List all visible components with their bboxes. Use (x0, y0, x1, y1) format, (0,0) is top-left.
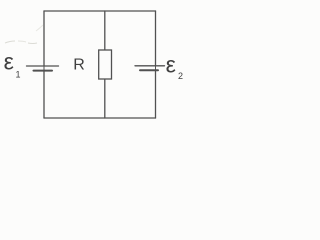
wire bottom rail (44, 117, 156, 119)
svg-text:2: 2 (178, 71, 183, 81)
svg-text:ε: ε (166, 52, 176, 78)
wire left branch lower (43, 71, 45, 118)
battery E1 plates (27, 66, 59, 71)
resistor R box (99, 50, 112, 79)
wire middle branch upper (104, 11, 106, 51)
wire middle branch lower (104, 79, 106, 118)
svg-text:R: R (73, 56, 85, 73)
scan smudge artifact (5, 25, 43, 44)
battery E2 plates (135, 66, 165, 70)
wire top rail (44, 10, 156, 12)
svg-text:ε: ε (4, 49, 14, 75)
wire left branch upper (43, 11, 45, 66)
wire right branch lower (155, 71, 157, 119)
wire right branch upper (155, 11, 157, 66)
svg-text:1: 1 (16, 70, 21, 80)
